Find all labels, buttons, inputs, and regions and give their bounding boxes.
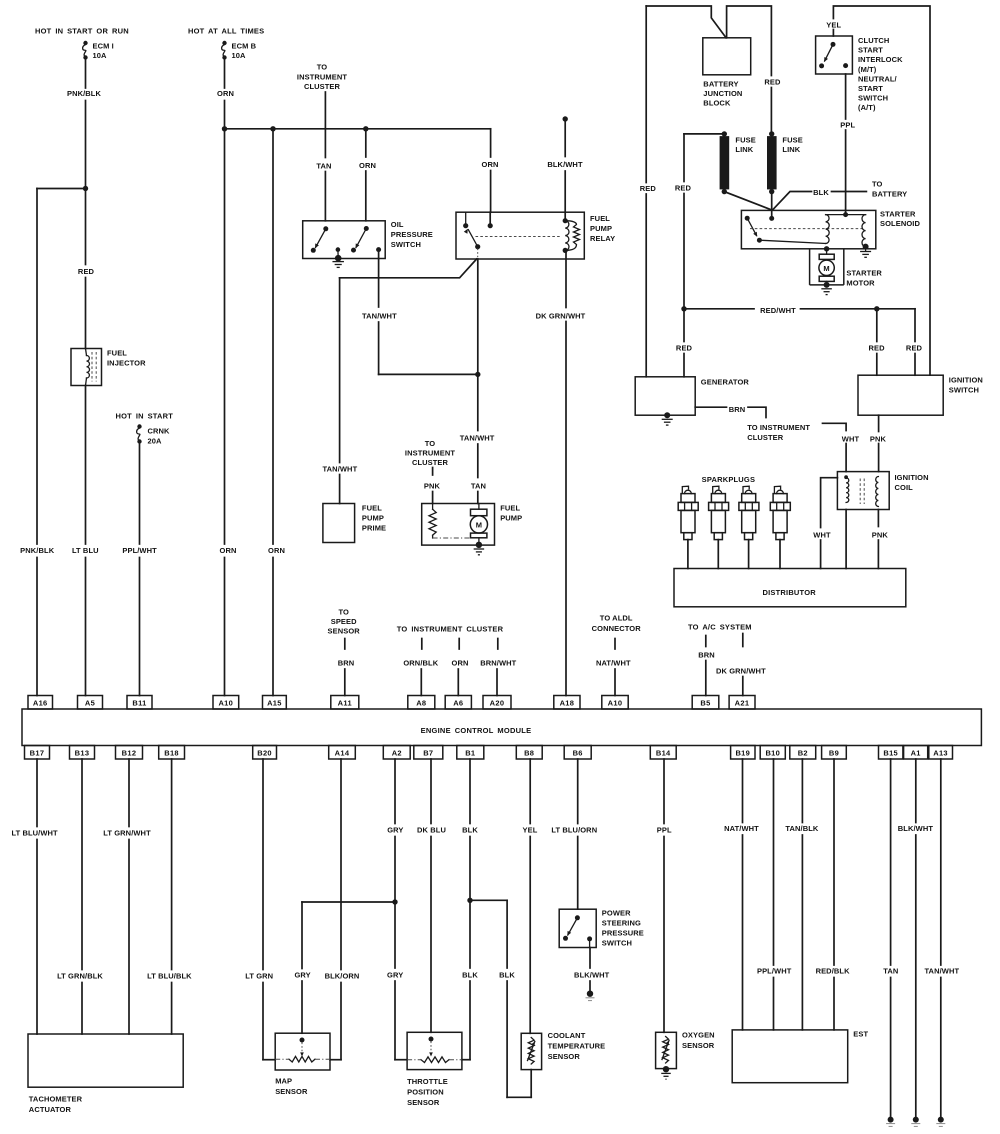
svg-text:DK GRN/WHT: DK GRN/WHT: [716, 667, 766, 676]
svg-text:TAN/WHT: TAN/WHT: [460, 434, 495, 443]
svg-text:B5: B5: [700, 698, 710, 707]
svg-text:BRN/WHT: BRN/WHT: [480, 659, 516, 668]
fuse CRNK 20A: [137, 424, 142, 443]
wire BRN from generator: [695, 406, 726, 408]
svg-text:INSTRUMENT: INSTRUMENT: [405, 449, 455, 458]
wire stub DK GRN/WHT: [742, 634, 744, 647]
svg-text:PRIME: PRIME: [362, 524, 386, 533]
svg-text:INTERLOCK: INTERLOCK: [858, 55, 903, 64]
svg-text:SPEED: SPEED: [331, 617, 357, 626]
svg-text:WHT: WHT: [842, 434, 860, 443]
svg-text:RED/BLK: RED/BLK: [816, 967, 851, 976]
svg-text:YEL: YEL: [523, 826, 538, 835]
svg-text:BLK/WHT: BLK/WHT: [898, 824, 934, 833]
wire ORN bus horizontal: [225, 128, 491, 130]
wire RED to right fuse link: [770, 88, 772, 134]
svg-text:COOLANT: COOLANT: [548, 1031, 586, 1040]
svg-text:SWITCH: SWITCH: [858, 94, 888, 103]
svg-text:SENSOR: SENSOR: [548, 1052, 581, 1061]
svg-text:B12: B12: [122, 748, 137, 757]
terminal dot TAN: [886, 1117, 895, 1127]
svg-text:START: START: [858, 84, 883, 93]
svg-text:PUMP: PUMP: [362, 514, 384, 523]
wire YEL from B8: [529, 759, 531, 824]
wire battery feed top left: [645, 194, 647, 377]
svg-text:A1: A1: [911, 748, 921, 757]
wire PNK/BLK down to A16: [36, 189, 38, 545]
svg-text:NEUTRAL/: NEUTRAL/: [858, 74, 898, 83]
svg-text:B18: B18: [164, 748, 179, 757]
svg-text:M: M: [476, 521, 482, 530]
starter motor M1: [810, 246, 844, 285]
svg-text:PPL: PPL: [657, 826, 672, 835]
wire PNK into fuel pump: [432, 492, 434, 504]
wire from battery junction block to fuse link RED: [727, 6, 772, 76]
svg-text:RED: RED: [869, 344, 886, 353]
svg-text:BLK/WHT: BLK/WHT: [547, 160, 583, 169]
svg-text:CLUTCH: CLUTCH: [858, 36, 889, 45]
svg-text:FUEL: FUEL: [500, 504, 520, 513]
EST module: [732, 1030, 848, 1083]
wire stub BRN: [705, 636, 707, 647]
svg-text:MOTOR: MOTOR: [846, 279, 875, 288]
svg-text:HOT IN START OR RUN: HOT IN START OR RUN: [35, 27, 129, 36]
fuel pump relay U1: [456, 212, 584, 259]
svg-text:BLK: BLK: [813, 188, 829, 197]
svg-text:FUEL: FUEL: [590, 214, 610, 223]
svg-text:FUEL: FUEL: [362, 504, 382, 513]
pin A16: [28, 696, 53, 710]
svg-text:A6: A6: [453, 698, 463, 707]
wire LT BLU/ORN from B6: [577, 759, 579, 824]
wire BLK/ORN from A14: [340, 759, 342, 970]
svg-text:LT GRN/WHT: LT GRN/WHT: [103, 829, 151, 838]
wire TAN/WHT down to fuel pump prime: [339, 278, 341, 463]
wire TAN/BLK from B2: [801, 759, 803, 823]
pin B10: [760, 746, 785, 760]
svg-text:A8: A8: [416, 698, 426, 707]
terminal dot TAN/WHT: [936, 1117, 945, 1127]
ground at oil pressure switch: [332, 255, 344, 267]
wire right fuse link down: [771, 192, 773, 211]
wire stub ORN/BLK: [421, 639, 423, 650]
wire WHT to ignition coil: [845, 444, 847, 472]
svg-text:B9: B9: [829, 748, 839, 757]
wire RED from fuse link to generator: [683, 134, 685, 182]
wire ORN to A6: [457, 669, 459, 696]
pin B1: [457, 746, 484, 760]
ignition switch: [858, 375, 943, 415]
fuse ECM I 10A: [83, 41, 88, 60]
junction dot: [467, 898, 472, 903]
svg-text:TAN/WHT: TAN/WHT: [924, 967, 959, 976]
svg-text:COIL: COIL: [895, 483, 914, 492]
svg-text:PNK: PNK: [870, 434, 887, 443]
tachometer actuator: [28, 1034, 183, 1087]
svg-text:TAN/WHT: TAN/WHT: [362, 312, 397, 321]
svg-text:NAT/WHT: NAT/WHT: [596, 659, 631, 668]
svg-text:WHT: WHT: [813, 530, 831, 539]
wire PNK/BLK from fuse ECM I: [85, 60, 87, 89]
svg-text:A10: A10: [218, 698, 233, 707]
svg-text:ORN: ORN: [217, 89, 234, 98]
svg-text:FUSE: FUSE: [782, 136, 802, 145]
wire LT BLU to A5: [85, 386, 87, 545]
svg-text:A20: A20: [490, 698, 505, 707]
svg-text:BLK/ORN: BLK/ORN: [325, 972, 360, 981]
wire PNK to ignition coil: [878, 444, 880, 472]
svg-text:HOT IN START: HOT IN START: [116, 412, 174, 421]
wire ORN to oil pressure switch: [365, 129, 367, 157]
svg-text:RED: RED: [906, 344, 923, 353]
pin A18: [554, 696, 580, 710]
pin B11: [127, 696, 152, 710]
starter solenoid: [741, 210, 875, 248]
svg-text:B14: B14: [656, 748, 671, 757]
oxygen sensor: [656, 1032, 677, 1068]
wire TAN/WHT from oil pressure switch: [378, 259, 380, 308]
wire ORN down to A10: [224, 129, 226, 544]
wire elbow to left fuse link: [684, 133, 724, 135]
wire battery feed upper segment: [645, 6, 647, 183]
svg-text:INJECTOR: INJECTOR: [107, 359, 146, 368]
wire LT GRN/WHT from B12: [128, 759, 130, 827]
wire ORN/BLK to A8: [420, 669, 422, 696]
svg-text:TEMPERATURE: TEMPERATURE: [548, 1042, 606, 1051]
wire PPL/WHT from B10: [773, 759, 775, 965]
svg-text:TO: TO: [425, 439, 436, 448]
pin B7: [414, 746, 443, 760]
pin B5: [692, 696, 719, 710]
fuse ECM B 10A: [222, 41, 227, 60]
ground at starter solenoid: [860, 244, 871, 258]
pin A10: [602, 696, 628, 710]
wire RED continue to generator: [683, 309, 685, 342]
oil pressure switch: [303, 221, 386, 259]
wire DK BLU from B7: [430, 759, 432, 824]
svg-text:OIL: OIL: [391, 220, 404, 229]
wire GRY into throttle position sensor: [395, 1059, 407, 1061]
svg-text:SWITCH: SWITCH: [391, 240, 421, 249]
svg-text:RED: RED: [78, 267, 95, 276]
pin B9: [822, 746, 847, 760]
power steering pressure switch: [559, 909, 596, 947]
svg-text:DISTRIBUTOR: DISTRIBUTOR: [763, 588, 817, 597]
pin A11: [331, 696, 359, 710]
svg-text:B20: B20: [257, 748, 272, 757]
wire stub NAT/WHT: [614, 639, 616, 650]
svg-text:B7: B7: [423, 748, 433, 757]
svg-text:ECM B: ECM B: [232, 42, 257, 51]
wire LT GRN/BLK from B13: [81, 759, 83, 970]
wire RED to fuel injector: [85, 189, 87, 265]
svg-text:SENSOR: SENSOR: [275, 1087, 308, 1096]
wire BLK/ORN into MAP sensor: [330, 1059, 341, 1061]
wire TAN from instrument cluster to oil pressure switch: [324, 92, 326, 158]
wire BLK segment: [832, 191, 867, 193]
svg-text:B1: B1: [465, 748, 475, 757]
svg-text:PPL: PPL: [840, 121, 855, 130]
svg-text:INSTRUMENT: INSTRUMENT: [297, 72, 347, 81]
pin B14: [650, 746, 676, 760]
wire BLK/WHT terminal dot: [563, 116, 568, 121]
svg-text:SWITCH: SWITCH: [602, 939, 632, 948]
sparkplug P2: [709, 486, 729, 568]
svg-text:LT BLU/ORN: LT BLU/ORN: [551, 826, 597, 835]
svg-text:A13: A13: [933, 748, 948, 757]
svg-text:RED: RED: [676, 344, 693, 353]
distributor: [674, 569, 906, 607]
wire BLK from B1: [469, 759, 471, 824]
svg-text:POWER: POWER: [602, 909, 631, 918]
wire BLK into throttle position sensor: [462, 1059, 470, 1061]
svg-text:OXYGEN: OXYGEN: [682, 1031, 715, 1040]
svg-text:LINK: LINK: [782, 145, 800, 154]
terminal dot BLK/WHT: [586, 991, 595, 1001]
svg-text:IGNITION: IGNITION: [949, 376, 983, 385]
fuel pump prime connector: [323, 504, 355, 543]
pin B13: [70, 746, 95, 760]
pin B6: [564, 746, 591, 760]
wire GRY branch to MAP sensor: [302, 901, 395, 903]
svg-text:20A: 20A: [148, 437, 163, 446]
wire to A16 branch: [37, 188, 86, 190]
ground at starter motor: [821, 282, 832, 295]
svg-text:TAN: TAN: [316, 162, 331, 171]
fuel injector: [71, 349, 102, 386]
svg-text:PNK: PNK: [872, 530, 889, 539]
svg-text:TAN: TAN: [471, 482, 486, 491]
svg-text:TO A/C SYSTEM: TO A/C SYSTEM: [688, 623, 752, 632]
svg-text:YEL: YEL: [826, 21, 841, 30]
svg-text:SOLENOID: SOLENOID: [880, 219, 920, 228]
wire LT BLU/BLK from B18: [171, 759, 173, 970]
svg-text:HOT AT ALL TIMES: HOT AT ALL TIMES: [188, 27, 264, 36]
junction dot: [681, 306, 686, 311]
svg-text:B2: B2: [798, 748, 808, 757]
wire RED/WHT segment: [801, 308, 916, 310]
svg-text:SENSOR: SENSOR: [407, 1098, 440, 1107]
wire PPL from clutch switch: [845, 74, 847, 119]
pin B2: [790, 746, 816, 760]
svg-text:LT GRN/BLK: LT GRN/BLK: [57, 972, 103, 981]
sparkplug P4: [770, 486, 790, 568]
svg-text:POSITION: POSITION: [407, 1088, 444, 1097]
pin A6: [445, 696, 471, 710]
wire BRN to B5: [705, 661, 707, 696]
terminal dot BLK/WHT: [911, 1117, 920, 1127]
ground at oxygen sensor: [661, 1066, 671, 1079]
sparkplug P3: [739, 486, 759, 568]
svg-text:SWITCH: SWITCH: [949, 386, 979, 395]
wire PPL from B14: [663, 759, 665, 824]
svg-text:PNK/BLK: PNK/BLK: [20, 546, 55, 555]
svg-text:BLK: BLK: [462, 971, 478, 980]
wire TAN from B15: [890, 759, 892, 965]
wire ORN down to A15: [272, 129, 274, 544]
wire BRN to A11: [344, 669, 346, 696]
svg-text:A10: A10: [608, 698, 623, 707]
svg-text:ORN: ORN: [220, 546, 237, 555]
svg-text:IGNITION: IGNITION: [895, 473, 929, 482]
svg-text:DK BLU: DK BLU: [417, 826, 446, 835]
junction dot: [874, 306, 879, 311]
pin B18: [159, 746, 185, 760]
svg-text:SENSOR: SENSOR: [682, 1041, 715, 1050]
battery junction block: [703, 38, 751, 75]
wire GRY from A2: [394, 759, 396, 824]
svg-text:RED: RED: [640, 184, 657, 193]
svg-text:CRNK: CRNK: [148, 427, 171, 436]
svg-text:STARTER: STARTER: [846, 269, 882, 278]
ignition coil T1: [837, 472, 889, 510]
ground at generator: [662, 412, 673, 425]
svg-text:STEERING: STEERING: [602, 919, 641, 928]
wire TAN/WHT relay output diagonal: [340, 259, 477, 278]
wire RED/BLK from B9: [833, 759, 835, 965]
svg-text:PUMP: PUMP: [500, 514, 522, 523]
svg-text:THROTTLE: THROTTLE: [407, 1077, 448, 1086]
wire DK GRN/WHT to A21: [742, 677, 744, 696]
svg-text:CLUSTER: CLUSTER: [304, 82, 341, 91]
wire WHT elbow from instrument cluster: [823, 423, 847, 430]
svg-text:CLUSTER: CLUSTER: [412, 458, 449, 467]
svg-text:(A/T): (A/T): [858, 103, 876, 112]
svg-text:A21: A21: [735, 698, 750, 707]
svg-text:GENERATOR: GENERATOR: [701, 378, 750, 387]
svg-text:CLUSTER: CLUSTER: [747, 433, 784, 442]
svg-text:GRY: GRY: [387, 971, 403, 980]
wire coolant sensor return: [530, 1070, 532, 1098]
svg-text:B8: B8: [524, 748, 534, 757]
svg-text:ECM I: ECM I: [93, 42, 114, 51]
junction dot: [363, 126, 368, 131]
svg-text:A16: A16: [33, 698, 48, 707]
wire BLK elbow to coolant sensor: [507, 1096, 531, 1098]
svg-text:TO INSTRUMENT: TO INSTRUMENT: [747, 423, 810, 432]
pin A8: [408, 696, 435, 710]
svg-text:LT BLU/WHT: LT BLU/WHT: [11, 829, 58, 838]
wire stub speed sensor: [344, 639, 346, 650]
pin B19: [731, 746, 755, 760]
wire LT GRN into MAP sensor: [263, 1059, 275, 1061]
wire DK GRN/WHT relay coil to A18: [565, 250, 567, 307]
wire NAT/WHT from B19: [742, 759, 744, 823]
wire PNK lower segment: [877, 540, 879, 569]
svg-text:A15: A15: [267, 698, 282, 707]
svg-text:10A: 10A: [232, 51, 247, 60]
svg-text:PNK/BLK: PNK/BLK: [67, 89, 102, 98]
wire LT BLU/WHT from B17: [36, 759, 38, 827]
pin A14: [329, 746, 356, 760]
MAP sensor: [275, 1033, 330, 1070]
wire top frame to battery junction block: [646, 6, 726, 38]
svg-text:START: START: [858, 46, 883, 55]
svg-text:BATTERY: BATTERY: [872, 190, 907, 199]
svg-text:SPARKPLUGS: SPARKPLUGS: [702, 475, 756, 484]
svg-text:LT BLU/BLK: LT BLU/BLK: [147, 972, 192, 981]
pin B17: [25, 746, 50, 760]
junction dot: [83, 186, 88, 191]
svg-text:A18: A18: [560, 698, 575, 707]
wire LT GRN from B20: [262, 759, 264, 970]
svg-text:ORN: ORN: [268, 546, 285, 555]
svg-text:CONNECTOR: CONNECTOR: [592, 624, 642, 633]
junction dot: [475, 372, 480, 377]
wire PNK from ignition coil: [877, 510, 879, 527]
svg-text:GRY: GRY: [387, 826, 403, 835]
svg-text:A14: A14: [335, 748, 350, 757]
svg-text:JUNCTION: JUNCTION: [703, 89, 742, 98]
wire BLK/WHT from A1: [915, 759, 917, 823]
engine control module U2: [22, 709, 981, 746]
pin A13: [929, 746, 953, 760]
svg-text:B10: B10: [765, 748, 780, 757]
svg-text:ORN: ORN: [359, 161, 376, 170]
wire NAT/WHT to A10: [614, 669, 616, 696]
generator G1: [635, 377, 695, 415]
pin B12: [116, 746, 143, 760]
pin B20: [253, 746, 277, 760]
svg-text:MAP: MAP: [275, 1077, 292, 1086]
svg-text:PPL/WHT: PPL/WHT: [757, 967, 792, 976]
svg-text:SENSOR: SENSOR: [328, 627, 361, 636]
svg-text:A5: A5: [85, 698, 95, 707]
wire BLK/WHT from power steering switch: [589, 948, 591, 969]
svg-text:BRN: BRN: [698, 651, 715, 660]
fuse link F1: [720, 131, 730, 194]
svg-text:B19: B19: [735, 748, 750, 757]
svg-text:B11: B11: [132, 698, 146, 707]
wire BLK to battery: [773, 192, 812, 210]
svg-text:BRN: BRN: [729, 405, 746, 414]
junction dot on ORN bus: [222, 126, 227, 131]
pin B8: [516, 746, 542, 760]
svg-text:NAT/WHT: NAT/WHT: [724, 824, 759, 833]
svg-text:ENGINE CONTROL MODULE: ENGINE CONTROL MODULE: [421, 726, 532, 735]
wire RED/WHT corner to ignition switch: [914, 309, 916, 342]
svg-text:A2: A2: [392, 748, 402, 757]
svg-text:BATTERY: BATTERY: [703, 80, 738, 89]
wire top frame right: [833, 6, 930, 375]
wire TAN/WHT relay output to fuel pump: [477, 259, 479, 431]
svg-text:TACHOMETER: TACHOMETER: [29, 1095, 83, 1104]
svg-text:RELAY: RELAY: [590, 234, 615, 243]
svg-text:LT GRN: LT GRN: [245, 972, 273, 981]
pin B15: [879, 746, 903, 760]
svg-text:LINK: LINK: [735, 145, 753, 154]
svg-text:STARTER: STARTER: [880, 210, 916, 219]
pin A2: [383, 746, 410, 760]
wire TAN/WHT elbow to junction: [379, 373, 478, 375]
junction dot: [392, 899, 397, 904]
wire PNK from ignition switch: [878, 415, 880, 431]
svg-text:TAN/WHT: TAN/WHT: [323, 465, 358, 474]
svg-text:GRY: GRY: [294, 971, 310, 980]
svg-text:A11: A11: [338, 698, 352, 707]
pin A21: [729, 696, 755, 710]
wire RED/WHT bus: [684, 308, 754, 310]
wire stub ORN: [458, 639, 460, 650]
wire BLK branch elbow: [470, 899, 507, 901]
pin A1: [904, 746, 928, 760]
svg-text:FUEL: FUEL: [107, 349, 127, 358]
svg-text:TO: TO: [872, 180, 883, 189]
wire TAN/WHT from A13: [940, 759, 942, 965]
svg-text:TO: TO: [317, 63, 328, 72]
wire WHT from ignition coil to distributor: [821, 478, 838, 528]
svg-text:ACTUATOR: ACTUATOR: [29, 1105, 72, 1114]
